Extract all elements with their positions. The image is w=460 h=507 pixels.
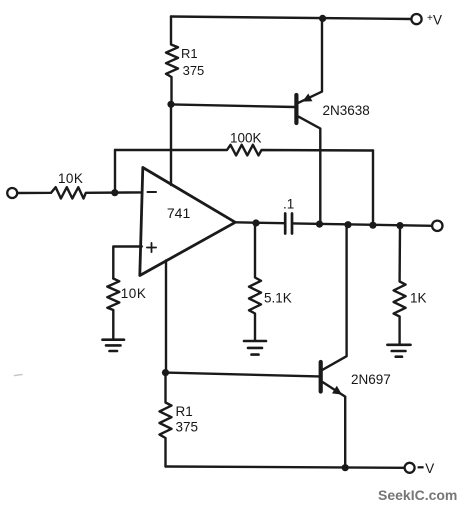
svg-text:SeekIC.com: SeekIC.com	[378, 487, 457, 503]
node collector 2N697	[344, 221, 351, 228]
resistor R1 (bottom)	[160, 373, 172, 467]
svg-text:5.1K: 5.1K	[264, 291, 292, 306]
node -V emitter junction	[342, 464, 349, 471]
svg-text:100K: 100K	[230, 130, 262, 145]
terminal output	[432, 221, 442, 231]
svg-text:1K: 1K	[410, 290, 427, 305]
wire 100K left end down to inverting node	[114, 150, 116, 193]
wire op-amp bottom through to lower node	[165, 261, 167, 373]
transistor Q1 2N3638	[294, 95, 298, 123]
ground (5.1K)	[244, 340, 266, 343]
wire base of 2N3638	[171, 104, 295, 107]
node output of op-amp	[252, 219, 259, 226]
node inverting input	[111, 189, 118, 196]
wire 100K right end down to output line	[372, 151, 374, 226]
capacitor C1 .1	[284, 214, 287, 234]
terminal +V	[411, 14, 421, 24]
resistor 100K feedback	[115, 145, 373, 156]
svg-text:375: 375	[183, 63, 205, 78]
wire top +V rail	[171, 17, 411, 20]
resistor R1 (top)	[166, 17, 178, 104]
wire capacitor to output rail	[293, 223, 432, 225]
svg-text:.1: .1	[283, 197, 294, 212]
terminal -V	[405, 463, 415, 473]
wire -V rail	[166, 467, 405, 468]
svg-text:R1: R1	[176, 404, 193, 419]
svg-text:R1: R1	[181, 46, 198, 61]
wire non-inverting input	[113, 247, 142, 279]
op-amp U1 741	[140, 168, 236, 276]
stray mark	[15, 375, 23, 376]
svg-text:2N697: 2N697	[351, 372, 391, 387]
ground (1K)	[387, 343, 410, 346]
resistor 10K (input)	[17, 187, 142, 198]
node at R1 top / base junction	[167, 101, 174, 108]
svg-text:V: V	[433, 13, 442, 28]
node 1K branch	[396, 222, 403, 229]
node 100K right	[369, 222, 376, 229]
node lower junction	[162, 369, 169, 376]
svg-text:741: 741	[167, 205, 191, 221]
transistor Q2 2N697	[319, 362, 323, 392]
node on top rail	[319, 15, 326, 22]
svg-text:10K: 10K	[121, 286, 147, 301]
node collector 2N3638	[316, 221, 323, 228]
svg-text:V: V	[425, 461, 434, 476]
svg-text:2N3638: 2N3638	[323, 103, 370, 118]
resistor 10K (non-inverting to ground)	[107, 279, 119, 339]
resistor 5.1K	[249, 223, 261, 340]
svg-text:375: 375	[176, 420, 199, 435]
wire base of 2N697	[166, 373, 319, 377]
resistor 1K	[394, 226, 406, 344]
label -V	[418, 466, 424, 468]
svg-text:10K: 10K	[58, 171, 83, 186]
ground (10K)	[103, 338, 125, 341]
terminal input	[7, 188, 17, 198]
wire op-amp output	[235, 221, 284, 224]
wire from R1 junction down to op-amp top edge	[170, 104, 172, 185]
